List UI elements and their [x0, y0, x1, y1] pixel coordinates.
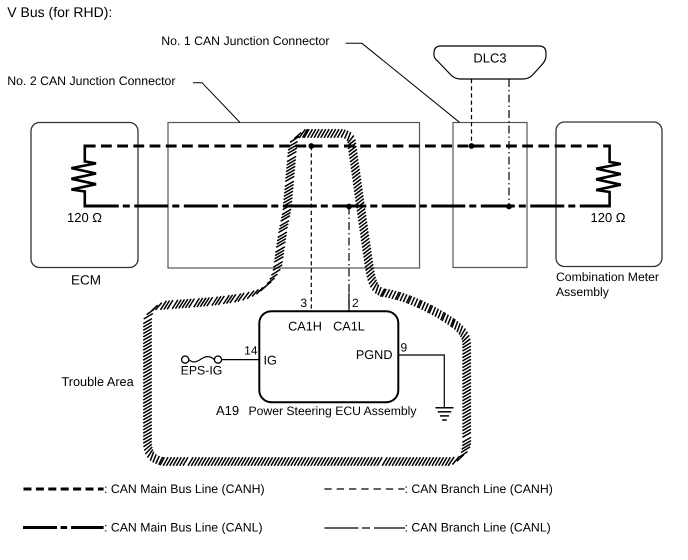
- svg-text:120 Ω: 120 Ω: [67, 210, 102, 225]
- svg-text:14: 14: [244, 344, 258, 358]
- svg-text:3: 3: [300, 296, 307, 310]
- svg-text:IG: IG: [264, 354, 277, 368]
- svg-text:: CAN Main Bus Line (CANL): : CAN Main Bus Line (CANL): [104, 520, 263, 534]
- svg-text:Power Steering ECU Assembly: Power Steering ECU Assembly: [249, 404, 418, 418]
- svg-text:ECM: ECM: [71, 272, 101, 287]
- svg-text:A19: A19: [216, 403, 239, 418]
- svg-text:V Bus (for RHD):: V Bus (for RHD):: [7, 4, 112, 20]
- svg-text:PGND: PGND: [356, 348, 393, 362]
- svg-text:: CAN Main Bus Line (CANH): : CAN Main Bus Line (CANH): [104, 482, 265, 496]
- svg-text:Combination Meter: Combination Meter: [556, 270, 659, 284]
- svg-text:2: 2: [352, 296, 359, 310]
- svg-text:No. 2 CAN Junction Connector: No. 2 CAN Junction Connector: [7, 74, 175, 88]
- svg-text:: CAN Branch Line (CANH): : CAN Branch Line (CANH): [405, 482, 553, 496]
- svg-text:DLC3: DLC3: [473, 51, 506, 66]
- svg-text:: CAN Branch Line (CANL): : CAN Branch Line (CANL): [405, 520, 551, 534]
- svg-text:Trouble Area: Trouble Area: [62, 375, 135, 389]
- svg-text:120 Ω: 120 Ω: [590, 210, 625, 225]
- svg-text:EPS-IG: EPS-IG: [181, 364, 223, 378]
- svg-text:9: 9: [401, 341, 408, 355]
- svg-text:CA1L: CA1L: [333, 320, 365, 334]
- svg-text:No. 1 CAN Junction Connector: No. 1 CAN Junction Connector: [161, 34, 329, 48]
- svg-text:Assembly: Assembly: [556, 285, 610, 299]
- svg-text:CA1H: CA1H: [288, 320, 322, 334]
